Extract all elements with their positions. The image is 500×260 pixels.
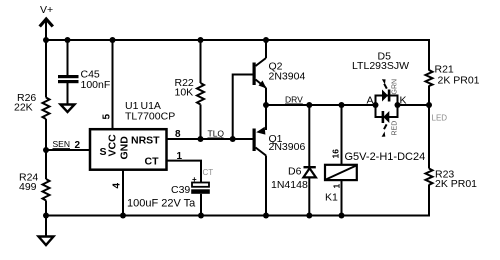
svg-text:8: 8 xyxy=(175,129,181,140)
svg-text:2N3904: 2N3904 xyxy=(269,71,306,83)
node top rail R22 junction xyxy=(198,37,204,43)
wire TLQ net pin8 xyxy=(166,138,253,140)
svg-text:2K PR01: 2K PR01 xyxy=(435,178,477,190)
svg-text:A: A xyxy=(367,95,374,107)
wire LED to right rail xyxy=(398,104,430,106)
LED D5 LTL293SJW xyxy=(352,51,409,137)
node DRV Q2 junction xyxy=(263,102,269,108)
svg-text:4: 4 xyxy=(112,183,123,189)
wire U1 pin1 to C39 xyxy=(166,161,201,183)
op-amp U1 TL7700CP box xyxy=(90,100,175,170)
diode D6 1N4148 xyxy=(271,166,316,192)
svg-text:1N4148: 1N4148 xyxy=(271,179,308,191)
node top rail pin5 junction xyxy=(110,37,116,43)
wire C39 bottom xyxy=(200,194,202,216)
wire R22 top xyxy=(200,40,202,83)
node Q1 bottom junction xyxy=(263,213,269,219)
relay K1 G5V-2-H1-DC24 xyxy=(325,151,425,204)
svg-text:16: 16 xyxy=(331,149,341,159)
wire right rail upper xyxy=(428,39,430,71)
node pin4 bottom junction xyxy=(120,213,126,219)
svg-text:GRN: GRN xyxy=(392,79,399,95)
V+ power symbol xyxy=(40,4,53,40)
svg-text:RED: RED xyxy=(392,121,399,136)
node K1 bottom junction xyxy=(339,213,345,219)
transistor Q1 2N3906 xyxy=(253,105,306,216)
svg-text:TL7700CP: TL7700CP xyxy=(125,111,175,123)
svg-text:2N3906: 2N3906 xyxy=(269,141,306,153)
node left bottom junction xyxy=(43,213,49,219)
svg-text:TLQ: TLQ xyxy=(208,129,225,139)
wire right rail middle xyxy=(428,86,430,169)
node D6 bottom junction xyxy=(306,213,312,219)
svg-text:CT: CT xyxy=(145,156,160,168)
wire C45 top xyxy=(67,40,69,75)
svg-text:V+: V+ xyxy=(40,4,53,16)
resistor R23 xyxy=(426,169,478,191)
node C39 bottom junction xyxy=(198,213,204,219)
svg-text:C39: C39 xyxy=(171,184,190,196)
svg-text:LTL293SJW: LTL293SJW xyxy=(352,60,409,72)
wire K1 bottom xyxy=(341,180,343,216)
wire U1 pin5 xyxy=(112,40,114,128)
node top rail Q2 junction xyxy=(263,37,269,43)
svg-text:100nF: 100nF xyxy=(81,79,111,91)
svg-text:100uF 22V Ta: 100uF 22V Ta xyxy=(127,198,196,210)
svg-text:NRST: NRST xyxy=(131,135,160,147)
svg-text:SEN: SEN xyxy=(53,139,70,149)
svg-text:CT: CT xyxy=(203,168,214,177)
wire top rail xyxy=(46,39,429,41)
wire left vertical upper xyxy=(45,40,47,98)
svg-text:K1: K1 xyxy=(325,192,338,204)
node right rail LED junction xyxy=(426,102,432,108)
ground symbol left xyxy=(39,237,54,246)
svg-text:1: 1 xyxy=(332,184,342,189)
wire left vertical mid xyxy=(45,119,47,179)
svg-text:1: 1 xyxy=(177,151,183,162)
wire C45 bottom xyxy=(67,83,69,105)
svg-text:10K: 10K xyxy=(175,87,194,99)
wire DRV net xyxy=(266,104,376,106)
ground symbol C45 xyxy=(61,105,75,113)
node SEN junction xyxy=(43,147,49,153)
node DRV D6 junction xyxy=(306,102,312,108)
node top rail C45 junction xyxy=(65,37,71,43)
node LED K junction xyxy=(395,102,401,108)
svg-text:VCC: VCC xyxy=(107,134,119,157)
node DRV K1 junction xyxy=(339,102,345,108)
svg-text:22K: 22K xyxy=(14,102,33,114)
svg-text:D6: D6 xyxy=(288,166,302,178)
capacitor C39 xyxy=(127,175,210,210)
wire Q2 base riser xyxy=(233,75,253,140)
svg-text:DRV: DRV xyxy=(285,95,303,105)
svg-text:LED: LED xyxy=(432,114,448,123)
resistor R21 xyxy=(426,64,480,87)
node LED A junction xyxy=(373,102,379,108)
node TLQ R22 junction xyxy=(198,136,204,142)
svg-text:5: 5 xyxy=(102,114,113,120)
wire R22 bottom xyxy=(200,105,202,140)
svg-text:+: + xyxy=(192,175,197,184)
wire D6 top xyxy=(308,105,310,167)
wire D6 bottom xyxy=(308,178,310,216)
svg-text:2K PR01: 2K PR01 xyxy=(438,75,480,87)
svg-text:499: 499 xyxy=(19,181,37,193)
resistor R24 xyxy=(19,172,50,201)
wire ground stem left xyxy=(45,216,47,238)
wire right rail lower xyxy=(428,185,430,217)
wire U1 pin4 xyxy=(122,170,124,216)
wire SEN to U1 pin2 xyxy=(46,149,89,151)
resistor R26 xyxy=(14,92,50,119)
node TLQ base junction xyxy=(230,136,236,142)
wire left vertical lower xyxy=(45,201,47,216)
svg-text:S: S xyxy=(100,146,107,158)
capacitor C45 xyxy=(58,69,110,92)
svg-text:2: 2 xyxy=(75,140,81,151)
wire bottom rail xyxy=(46,215,429,217)
wire K1 top xyxy=(341,105,343,165)
resistor R22 xyxy=(175,77,205,105)
svg-text:GND: GND xyxy=(119,136,131,160)
transistor Q2 2N3904 xyxy=(253,40,306,105)
node top rail V+ junction xyxy=(43,37,49,43)
svg-text:G5V-2-H1-DC24: G5V-2-H1-DC24 xyxy=(345,151,426,163)
